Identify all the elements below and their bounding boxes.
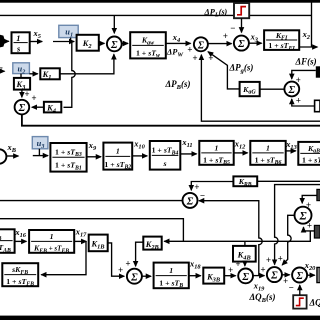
wire: upper dark block into ST top [302,195,317,203]
summer S7 [238,269,253,284]
svg-text:−: − [200,190,205,200]
svg-text:+: + [194,182,199,192]
wire: KRB input line from right edge [257,180,320,182]
svg-text:1: 1 [16,34,20,43]
block: cropped small box right edge feeding S5 [315,100,320,111]
wire: K1B output into S6 left [108,243,125,276]
wire: x7 input arrow at left edge [0,70,5,72]
block: cropped dark block lower right edge [314,225,320,238]
wire: x13 [286,150,296,152]
svg-text:+: + [228,265,233,275]
svg-text:1: 1 [50,232,54,241]
summer S6 [127,269,142,284]
bottom border bar [0,316,320,320]
wire: drop into summer S1 top [113,15,115,33]
svg-text:Σ: Σ [298,211,306,223]
block KRB [233,176,257,188]
wire: K4B feed stub from L3 [244,241,246,246]
svg-text:+: + [283,276,288,286]
wire: bar into S5 top [292,70,316,79]
svg-text:Σ: Σ [186,197,194,208]
wire: S9 output x20 into gray block [307,274,315,276]
block K3 [14,78,30,91]
summer S1 [107,37,122,52]
svg-text:+: + [223,31,228,41]
step source DPL icon [234,3,249,18]
svg-text:1: 1 [215,143,219,152]
wire: x4 into S2 [166,42,191,44]
control input u3 [32,137,48,151]
svg-text:−: − [288,283,293,293]
svg-text:+: + [192,53,197,63]
wire: input into integrator 1/s [4,40,9,42]
wire: step into S9 bottom [299,285,301,295]
svg-text:+: + [266,255,271,265]
wire: S5 output to KaG [260,88,285,90]
wire: x10 [132,155,147,157]
block 1/(1+sTB6) [250,141,285,166]
wire: K3 into summer S4 [21,90,23,98]
svg-text:s: s [16,44,20,53]
svg-text:1: 1 [116,146,120,155]
wire: DF(s) output to right edge [299,46,317,48]
summer S4 [15,100,30,115]
wire: x5 output arrow [30,41,43,43]
wire: K1 output up into S1 bottom [60,54,114,74]
block sKFB/(1+sTFB) [2,263,38,287]
control input u2 [13,63,30,76]
summer S5 [284,82,299,97]
block 1/(1+sTB) [154,263,189,290]
block (1+sTB3)/(1+sTB1) [50,143,86,172]
wire: vertical from u1 node down to K4 with hop [64,42,76,108]
block: cropped dark block upper right edge [317,189,320,200]
wire: K4 into summer S4 [32,106,44,108]
wire: KaG up and diagonal into S2 [208,52,240,89]
block K3B [203,268,224,284]
wire: x11 [180,153,196,155]
wire: S8 to S9 [282,274,290,276]
wire: ST output down into S8 with hop [282,215,294,265]
wire: long line LA from right edge into S2 bottom [201,55,320,121]
summer S3 [234,36,249,51]
svg-text:+: + [118,265,123,275]
wire: lower dark block into ST bottom [304,227,315,231]
block K1B [89,235,108,252]
wire: long line L2 from left edge down to L3 [0,219,183,242]
summer SRB [183,193,198,208]
svg-text:+: + [296,95,301,105]
svg-text:+: + [208,53,213,63]
top border bar [0,0,320,3]
wire: S7 to S8 [253,275,264,277]
wire: DF(s) feedback up right side [311,0,313,47]
block 1/s [12,32,30,53]
block: cropped gray block right edge [317,267,320,282]
wire: S6 into TB block [142,275,151,277]
wire: SRB output to left edge [0,200,183,202]
svg-text:+: + [307,220,312,230]
summer ST [295,207,312,224]
wire: u2 to K1 [29,73,37,75]
svg-text:Σ: Σ [237,39,245,50]
block KFI/(1+sTFI) [264,30,299,52]
wire: long line L3 into K2B with hops [164,231,310,241]
svg-text:Σ: Σ [197,40,205,51]
wire: x9 [87,156,101,158]
summer SB cropped at left edge [0,149,6,163]
block K2 [77,35,99,51]
block K4 [44,102,61,115]
svg-text:s: s [162,159,166,168]
wire: x3 into KFI block [249,42,262,44]
block Kaw/(1+sTw) [130,32,166,59]
block K2B [143,237,161,251]
node: cropped thick bar at right edge [316,66,320,77]
svg-text:Σ: Σ [288,85,296,96]
wire: K2 into S1 [99,42,105,44]
svg-text:+: + [235,259,240,269]
svg-text:+: + [278,253,283,263]
wire: KRB output into SRB top [191,182,233,191]
wire: K3B into S7 [224,275,235,277]
block KaB cropped at right edge [298,142,320,167]
block KaG [240,82,260,96]
summer S8 [267,267,282,282]
svg-text:1: 1 [266,143,270,152]
svg-text:ΔF(s): ΔF(s) [295,57,317,67]
svg-text:+: + [306,200,311,210]
wire: S2 to S3 [208,43,232,45]
summer S2 [194,37,208,51]
svg-text:Σ: Σ [110,40,118,51]
summer S9 [292,268,307,283]
wire: xB arrow [7,155,19,157]
step source DQL icon [293,295,306,308]
wire: x18 [189,275,201,277]
svg-text:+: + [31,93,36,103]
wire: S1 to Kaw block [122,42,128,44]
node: cropped input arrow at left edge [0,35,5,48]
wire: x12 [234,152,248,154]
wire: V1 from x19 node up and left into SRB [199,201,262,276]
block (1+sTB4)/s [150,141,181,170]
svg-text:Σ: Σ [18,103,26,114]
svg-text:Σ: Σ [295,271,303,282]
svg-text:−: − [230,23,235,33]
block 1/(1+sTB5) [199,141,233,166]
block K1 [40,68,60,81]
wire: box into S5 bottom [292,99,315,106]
svg-text:+: + [260,265,265,275]
svg-text:Σ: Σ [270,271,278,282]
wire: u3 stem [38,149,40,156]
svg-text:Σ: Σ [241,272,249,283]
wire: S4 output down then right (long line LB) [22,114,320,125]
wire: x17 [74,240,86,242]
wire: into K2 [53,41,74,43]
svg-text:Σ: Σ [130,272,138,283]
control input u1 [59,25,78,38]
wire: into block B1 [33,155,48,157]
block 1/(1+sTB2) [103,143,132,171]
wire: from right edge down to S8 top [275,185,320,265]
wire: step into S3 top [241,18,243,32]
wire: K4B into S7 top [244,262,246,266]
wire: x17 branch down into sKFB block [41,241,86,274]
wire: u2 stem to K3 [20,74,22,78]
block 1/(KEB+sTEB) [29,230,74,254]
svg-text:+: + [125,258,130,268]
block K4B [233,246,256,262]
wire: K2B output into S6 top [136,242,144,266]
svg-text:1: 1 [169,266,173,275]
wire: x16 [15,240,27,242]
wire: u1 stem [70,38,72,42]
svg-text:+: + [24,89,29,99]
svg-text:+: + [187,44,192,54]
block cropped at left edge (1+sTAB) [0,229,15,254]
wire: long feedback line under top border [0,14,312,16]
